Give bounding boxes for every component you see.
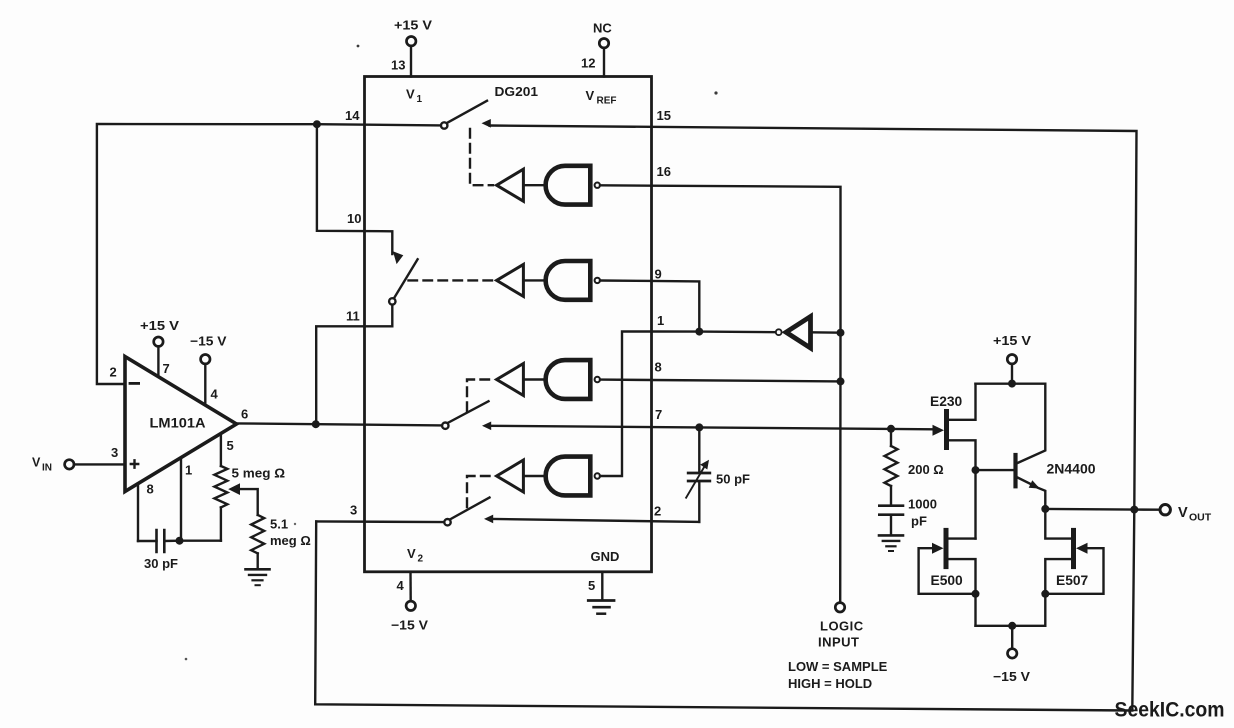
svg-text:E507: E507 — [1056, 573, 1089, 588]
svg-text:INPUT: INPUT — [818, 635, 860, 650]
node VOUT terminal — [1160, 505, 1212, 524]
svg-text:−15 V: −15 V — [190, 334, 227, 349]
wire pin 16 to logic net — [652, 186, 841, 333]
wire op-amp pin 2 stub and feedback left vertical — [97, 124, 317, 384]
wire S1 dashed control link — [470, 129, 493, 185]
wire pin 9 to pin 1 node — [652, 281, 700, 332]
switch S1 — [441, 101, 491, 129]
switch S2 throw arrow — [393, 251, 403, 264]
svg-text:DG201: DG201 — [495, 84, 539, 99]
svg-text:E500: E500 — [931, 573, 964, 588]
wire op-amp pin 8 stub — [137, 483, 139, 541]
svg-text:13: 13 — [391, 58, 405, 73]
svg-text:LOGIC: LOGIC — [820, 619, 864, 634]
svg-text:GND: GND — [591, 549, 620, 564]
wire gate to pin 8 — [600, 378, 652, 381]
analog switch IC U2 DG201 box — [365, 77, 652, 572]
power +15V terminal (pin 13) — [394, 18, 432, 46]
pin 5 wire — [601, 572, 603, 600]
svg-text:pF: pF — [911, 514, 927, 529]
resistor R3 200 ohm — [885, 429, 944, 505]
svg-text:14: 14 — [345, 108, 360, 123]
wire pin 1 to buffer bubble — [652, 330, 776, 333]
svg-text:8: 8 — [655, 360, 662, 375]
wire pin 8 to logic net — [652, 380, 841, 381]
svg-text:2: 2 — [110, 365, 117, 380]
node junction dot pin 14 feedback — [313, 120, 321, 128]
node junction dot -15V rail — [1008, 622, 1016, 630]
wire op-amp pin 1 stub — [180, 458, 182, 541]
wire logic input vertical — [839, 333, 842, 603]
svg-text:1: 1 — [185, 463, 192, 478]
capacitor C1 30 pF — [138, 530, 180, 571]
wire pin 15 / right border / bottom border / pin 3 loop — [315, 126, 1136, 711]
svg-text:meg Ω: meg Ω — [270, 533, 311, 548]
transistor Q2 2N4400 — [976, 384, 1096, 509]
wire gate to pin 1 — [600, 332, 652, 477]
wire buffer to logic net — [811, 331, 841, 334]
svg-text:15: 15 — [657, 108, 671, 123]
transistor Q4 E507 — [1045, 509, 1103, 626]
ground (pin 5) — [588, 601, 614, 614]
svg-text:50 pF: 50 pF — [716, 472, 750, 487]
gate output bubble (channel 3) — [595, 377, 600, 382]
node junction dot logic net / pin 8 — [837, 377, 845, 385]
pin 4 wire — [409, 572, 412, 602]
svg-text:5.1: 5.1 — [270, 517, 288, 532]
node junction dot logic net / buffer — [837, 329, 845, 337]
wire gate to pin 16 — [600, 184, 652, 187]
svg-text:V: V — [32, 456, 41, 470]
inverter (channel 4) — [497, 460, 524, 492]
wire pin 3 into box — [316, 520, 444, 523]
power +15V terminal (op-amp pin 7) — [140, 318, 179, 346]
gate output bubble (channel 4) — [595, 473, 600, 478]
svg-text:200 Ω: 200 Ω — [908, 462, 944, 477]
svg-text:10: 10 — [347, 211, 361, 226]
node NC terminal (pin 12) — [593, 21, 612, 48]
svg-text:1: 1 — [657, 313, 664, 328]
svg-text:4: 4 — [211, 387, 219, 402]
svg-text:30 pF: 30 pF — [144, 556, 178, 571]
svg-text:2N4400: 2N4400 — [1047, 461, 1096, 477]
pin 13 wire — [410, 46, 412, 77]
node junction dot output feedback — [312, 420, 320, 428]
wire -15V rail (right) — [976, 625, 1046, 627]
power -15V terminal (op-amp pin 4) — [190, 334, 227, 364]
wire pin 14 into box — [317, 124, 441, 125]
svg-text:+15 V: +15 V — [394, 18, 432, 33]
node junction dot E500 source — [972, 590, 980, 598]
svg-text:7: 7 — [163, 361, 170, 376]
wire inverter to gate (channel 1) — [523, 184, 546, 186]
wire pin 7 output — [491, 426, 933, 430]
svg-text:HIGH = HOLD: HIGH = HOLD — [788, 676, 872, 691]
svg-text:6: 6 — [241, 407, 248, 422]
inverter (channel 1) — [497, 169, 524, 201]
svg-text:11: 11 — [346, 309, 360, 324]
wire gate to pin 9 — [600, 279, 652, 282]
svg-text:2: 2 — [654, 504, 661, 519]
svg-text:NC: NC — [593, 21, 612, 36]
svg-text:9: 9 — [655, 267, 662, 282]
node junction dot Q2 base — [972, 466, 980, 474]
node junction dot right border output — [1130, 506, 1138, 514]
svg-text:LOW = SAMPLE: LOW = SAMPLE — [788, 659, 888, 674]
wire pin 10 from feedback node — [317, 124, 392, 254]
svg-text:+15 V: +15 V — [140, 318, 179, 333]
gate output bubble (channel 2) — [595, 278, 600, 283]
svg-text:REF: REF — [597, 96, 617, 107]
power +15V terminal (right) — [993, 333, 1031, 384]
node junction dot pin 7 / R3 — [887, 425, 895, 433]
switch S4 — [444, 498, 493, 526]
resistor R2 5.1 meg — [251, 515, 311, 569]
node junction dot output emitter — [1041, 505, 1049, 513]
svg-text:−15 V: −15 V — [391, 618, 428, 633]
node junction dot pin 7 / C2 — [695, 423, 703, 431]
svg-text:1000: 1000 — [908, 497, 937, 512]
node LOGIC INPUT terminal — [788, 603, 888, 691]
svg-text:8: 8 — [147, 482, 154, 497]
svg-text:V: V — [586, 88, 595, 103]
ink speck (scan artifact) — [714, 91, 717, 94]
svg-text:SeekIC.com: SeekIC.com — [1115, 698, 1225, 722]
potentiometer R1 5 meg — [214, 466, 285, 541]
wire output to VOUT — [1045, 508, 1160, 511]
wire S2 dashed control link — [409, 279, 494, 281]
pin 12 wire — [603, 48, 605, 77]
ground (below R2) — [246, 569, 270, 585]
node junction dot E507 source — [1041, 590, 1049, 598]
wire op-amp output pin 6 to DG201 pin 6 — [237, 423, 443, 425]
gate (channel 2 NAND) — [546, 261, 591, 300]
svg-text:2: 2 — [418, 554, 424, 565]
switch S2 — [389, 259, 418, 304]
wire pin 2 output — [493, 519, 700, 522]
node VIN terminal — [32, 456, 74, 474]
transistor Q3 E500 — [919, 530, 976, 625]
svg-text:V: V — [1178, 505, 1188, 521]
wire pin 11 to feedback node — [316, 305, 392, 425]
wire +15V rail (right) — [976, 383, 1046, 385]
gate (channel 1 NAND) — [546, 166, 591, 205]
wire VIN to op-amp pin 3 — [74, 463, 125, 465]
svg-text:5: 5 — [588, 578, 595, 593]
svg-text:V: V — [407, 546, 416, 561]
wire C1 node to pot bottom — [180, 540, 221, 542]
svg-text:12: 12 — [581, 56, 595, 71]
node junction dot pin1/C1 — [176, 537, 184, 545]
svg-text:−15 V: −15 V — [993, 669, 1030, 684]
wire pin 7 stub — [157, 346, 159, 376]
svg-text:7: 7 — [655, 407, 662, 422]
svg-text:5 meg Ω: 5 meg Ω — [232, 466, 286, 481]
gate (channel 4 NAND) — [546, 457, 591, 496]
svg-text:3: 3 — [111, 445, 118, 460]
ground (C3) — [879, 535, 903, 551]
logic buffer U3 bubble — [776, 329, 782, 335]
svg-text:+15 V: +15 V — [993, 333, 1031, 348]
wire inverter to gate (channel 3) — [523, 378, 546, 380]
inverter (channel 2) — [497, 264, 524, 296]
wire inverter to gate (channel 2) — [523, 279, 546, 281]
svg-text:V: V — [406, 87, 415, 102]
node junction dot +15V rail — [1008, 380, 1016, 388]
svg-text:LM101A: LM101A — [150, 415, 206, 431]
wire inverter to gate (channel 4) — [523, 475, 546, 477]
svg-text:3: 3 — [350, 503, 357, 518]
capacitor C3 1000 pF — [879, 497, 937, 535]
logic buffer U3 inverter — [786, 317, 811, 349]
svg-text:4: 4 — [397, 578, 405, 593]
power -15V terminal (pin 4) — [391, 601, 428, 632]
wire pin 4 stub — [204, 364, 206, 404]
switch S3 — [442, 401, 491, 430]
svg-text:IN: IN — [42, 463, 52, 474]
wire S3 dashed control link — [467, 380, 493, 412]
capacitor C2 50 pF variable — [686, 427, 750, 522]
node junction dot pin 1 net — [695, 328, 703, 336]
svg-text:5: 5 — [227, 438, 234, 453]
op-amp U1 LM101A — [125, 357, 237, 492]
inverter (channel 3) — [497, 364, 524, 396]
transistor Q1 E230 — [930, 384, 976, 539]
gate (channel 3 NAND) — [546, 360, 591, 399]
wire op-amp pin 5 stub — [220, 434, 222, 466]
svg-text:16: 16 — [657, 164, 671, 179]
wire S4 dashed control link — [467, 476, 493, 507]
svg-text:1: 1 — [417, 94, 423, 105]
svg-text:OUT: OUT — [1189, 512, 1212, 524]
svg-text:E230: E230 — [930, 394, 963, 409]
gate output bubble (channel 1) — [595, 183, 600, 188]
power -15V terminal (right) — [993, 626, 1030, 684]
